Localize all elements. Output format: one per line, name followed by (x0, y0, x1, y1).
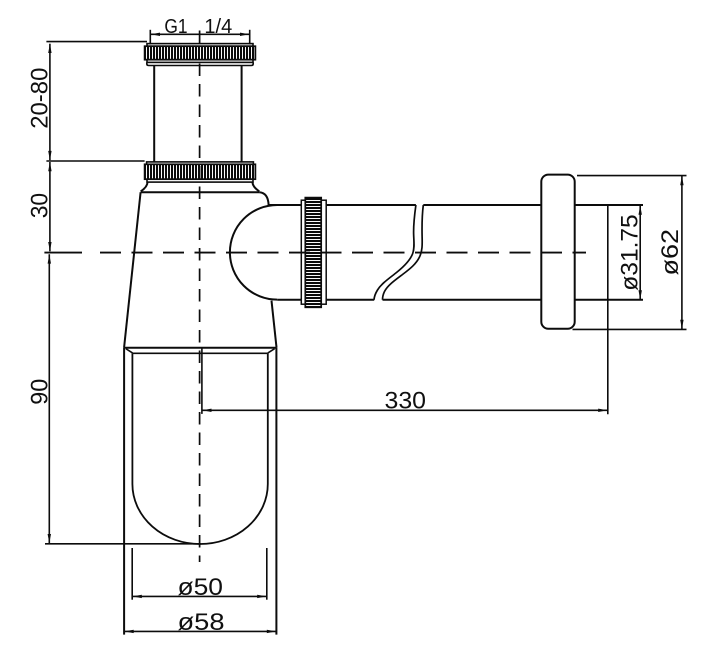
outlet pipe top (nut to break) (326, 204, 416, 206)
outlet pipe top (body to nut) (269, 204, 302, 206)
svg-text:30: 30 (27, 193, 54, 218)
nut N1 bottom band (147, 60, 253, 63)
dimension 330 line (202, 409, 608, 411)
body neck left (141, 182, 148, 191)
dimension G1 1/4 line (150, 33, 249, 35)
cup inner wall right (267, 353, 269, 484)
inlet pipe right edge (241, 66, 243, 162)
dimension 330 extension left (201, 348, 203, 414)
nut N1 top band (147, 44, 253, 47)
svg-text:90: 90 (27, 379, 54, 405)
dimension 30 line (49, 162, 51, 251)
nut N2 knurl (145, 164, 256, 179)
dimension dia62 arrows (680, 176, 683, 329)
outlet pipe bottom (elbow to nut) (277, 299, 301, 301)
body shoulder line (141, 191, 260, 193)
vertical centerline dashed (199, 64, 201, 563)
dimension G1 1/4 extension tick right (249, 30, 251, 45)
outlet pipe top (break to flange) (423, 204, 541, 206)
cup chamfer left (126, 349, 133, 353)
dimension 30 arrows (48, 162, 51, 251)
break curve 2 (383, 205, 424, 300)
svg-text:330: 330 (385, 387, 427, 414)
nut N3 right cap (321, 200, 326, 304)
cup inner wall left (131, 353, 133, 484)
dimension 20-80 extension top (46, 41, 147, 43)
svg-text:1/4: 1/4 (204, 16, 232, 38)
elbow arc (230, 205, 277, 300)
dimension 90 extension bottom (45, 543, 201, 545)
dimension 20-80 arrows (48, 44, 51, 161)
pipe end top edge (575, 204, 643, 206)
pipe end bottom edge (575, 299, 643, 301)
shoulder-to-pipe corner (259, 192, 268, 205)
svg-text:ø62: ø62 (657, 229, 684, 276)
break curve 1 (374, 205, 416, 300)
body taper right lower (272, 301, 277, 348)
inlet pipe left edge (153, 66, 155, 162)
dimension 90 arrows (48, 254, 51, 543)
cup rim top (124, 347, 276, 349)
body taper left (124, 192, 141, 347)
dimension G1 1/4 arrows (151, 33, 250, 36)
dimension dia50 extension right (266, 548, 268, 600)
wall flange (541, 175, 574, 329)
dimension dia50 line (132, 595, 267, 597)
svg-text:G1: G1 (164, 16, 187, 38)
horizontal centerline first long dash (44, 252, 82, 254)
dimension dia62 extension bottom (573, 328, 687, 330)
nut N1 lip (147, 62, 253, 65)
outlet pipe bottom (break to flange) (383, 299, 542, 301)
dimension G1 1/4 extension tick left (149, 30, 151, 45)
nut N1 knurl (145, 46, 256, 60)
dimension dia50 extension left (131, 548, 133, 600)
nut N2 bottom band (147, 179, 253, 182)
dimension dia50 arrows (133, 595, 267, 598)
svg-text:ø58: ø58 (178, 609, 225, 636)
nut N3 left cap (301, 200, 305, 304)
dimension dia58 line (124, 630, 276, 632)
dimension dia58 arrows (124, 630, 276, 633)
svg-text:ø50: ø50 (178, 574, 224, 601)
horizontal centerline dashed (100, 252, 586, 254)
vertical centerline tick top (199, 31, 201, 44)
dimension dia31.75 arrows (639, 205, 642, 299)
body neck right (253, 182, 260, 191)
cup outer wall right (275, 347, 277, 634)
cup inner rim (133, 352, 268, 354)
nut N2 top band (147, 162, 254, 164)
nut N3 knurl (305, 198, 321, 308)
cup chamfer right (268, 349, 275, 353)
dimension dia31.75 line (639, 205, 641, 299)
dimension 90 line (48, 254, 50, 543)
svg-text:20-80: 20-80 (27, 68, 54, 129)
outlet pipe bottom (nut to break) (326, 299, 374, 301)
dimension dia62 line (681, 176, 683, 329)
cup inner dome (132, 484, 267, 544)
dimension 20-80 extension bottom (46, 160, 144, 162)
dimension dia62 extension top (577, 175, 687, 177)
dimension 20-80 line (49, 44, 51, 161)
pipe end cap / 330 extension (607, 205, 609, 414)
cup outer wall left (123, 347, 125, 634)
dimension 330 arrows (202, 409, 607, 412)
svg-text:ø31.75: ø31.75 (617, 214, 644, 290)
